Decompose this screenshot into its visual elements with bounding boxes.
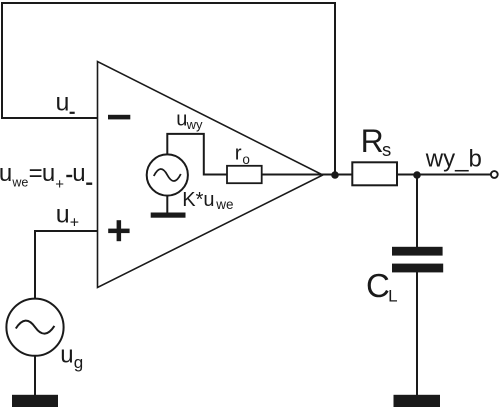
svg-text:L: L <box>388 287 397 306</box>
dependent source K*uwe circle <box>147 154 188 195</box>
op-amp U1 triangle <box>98 62 323 288</box>
wire noninverting input u+ <box>34 230 97 232</box>
svg-text:u: u <box>56 89 70 117</box>
resistor Rs box <box>352 162 397 185</box>
svg-text:o: o <box>242 152 250 167</box>
internal ground bar <box>151 213 186 218</box>
wire feedback top horizontal <box>1 2 336 4</box>
svg-text:u: u <box>60 342 73 369</box>
minus input symbol <box>108 115 130 120</box>
wire inverting input u- <box>1 117 97 119</box>
wire feedback right vertical to output node <box>334 2 336 175</box>
svg-text:+: + <box>55 176 64 193</box>
capacitor CL bottom plate <box>392 264 443 273</box>
wire u+ down to source ug <box>34 230 36 299</box>
svg-text:s: s <box>382 139 391 160</box>
source ug circle <box>6 299 63 356</box>
wire feedback left vertical <box>1 2 3 118</box>
wire internal from dependent source top to ro <box>167 134 227 175</box>
wire ro to output apex <box>262 174 352 176</box>
label uwe formula: minus subscript <box>86 183 92 185</box>
svg-text:u: u <box>42 160 55 187</box>
wire capacitor to ground <box>416 272 418 396</box>
ground bar right <box>394 395 441 407</box>
wire node down to capacitor CL <box>416 175 418 248</box>
wire Rs to output terminal <box>397 174 491 176</box>
node wy_b junction dot <box>413 171 421 179</box>
svg-text:we: we <box>11 175 28 189</box>
svg-text:we: we <box>215 197 233 212</box>
svg-text:R: R <box>361 123 384 159</box>
resistor ro box <box>227 166 262 183</box>
wire dependent source to internal ground <box>166 196 168 214</box>
svg-text:+: + <box>70 214 79 231</box>
label uwe formula: minus <box>66 175 72 177</box>
svg-text:u: u <box>72 160 85 187</box>
svg-text:r: r <box>235 141 242 164</box>
svg-text:wy: wy <box>186 117 203 132</box>
svg-text:u: u <box>0 160 12 187</box>
svg-text:K*u: K*u <box>182 189 214 211</box>
svg-text:g: g <box>74 353 83 372</box>
plus input symbol <box>108 220 129 241</box>
sine wave inside source ug <box>16 321 55 334</box>
svg-text:C: C <box>366 267 390 304</box>
svg-text:=: = <box>29 160 43 187</box>
ground bar left <box>12 395 58 407</box>
open terminal wy_b <box>491 171 498 178</box>
svg-text:u: u <box>56 200 70 228</box>
label u- subscript <box>70 112 75 114</box>
sine wave inside dependent source <box>154 169 181 181</box>
output node junction dot <box>331 171 339 179</box>
wire source ug to ground <box>34 356 36 397</box>
svg-text:wy_b: wy_b <box>425 146 482 173</box>
capacitor CL top plate <box>392 247 443 256</box>
